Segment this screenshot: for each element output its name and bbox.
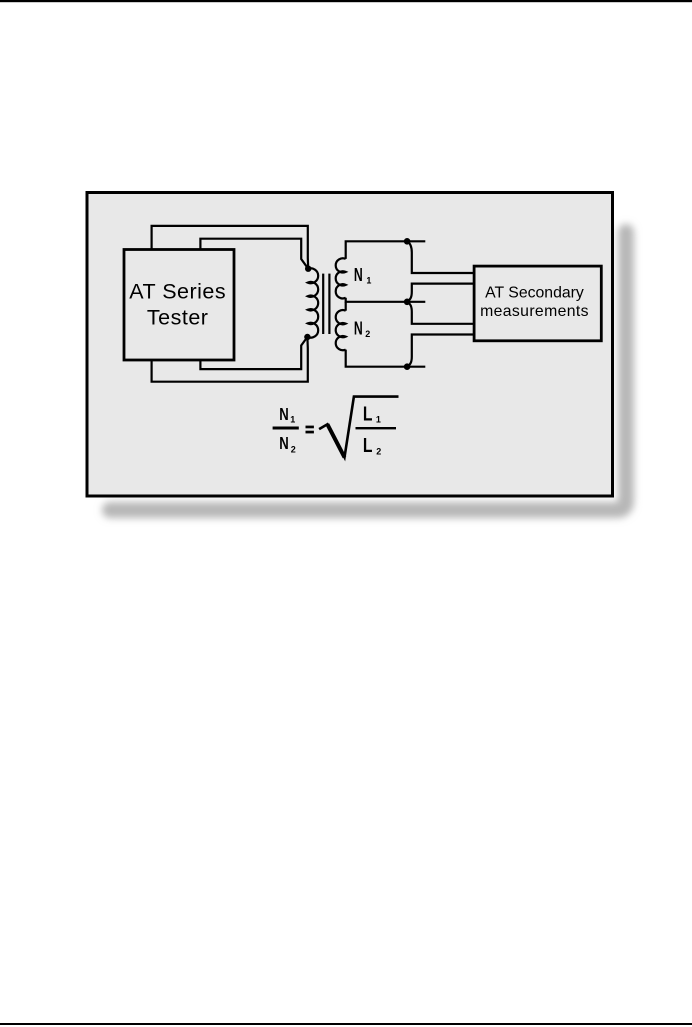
transformer core line 1: [322, 274, 324, 334]
page top rule: [0, 0, 692, 2]
transformer T1 primary winding: [308, 268, 318, 337]
svg-text:1: 1: [366, 276, 371, 286]
svg-text:N: N: [279, 405, 288, 424]
box U1: AT Series Tester: [124, 250, 234, 361]
svg-text:N: N: [354, 266, 363, 286]
panel drop shadow: [102, 224, 634, 518]
junction dot: primary bottom: [304, 334, 310, 340]
svg-text:L: L: [363, 403, 373, 425]
svg-text:Tester: Tester: [147, 305, 209, 329]
label N1: [354, 266, 372, 286]
wire: stub right of top dot: [407, 240, 425, 242]
svg-text:N: N: [354, 319, 363, 339]
svg-text:1: 1: [376, 414, 381, 424]
transformer core line 2: [328, 274, 330, 334]
wire: lead from middle dot to measurement box: [407, 302, 474, 324]
wire: stub right of bottom dot: [407, 366, 425, 368]
wire: stub right of middle dot: [407, 301, 425, 303]
wire: N2 bottom lead: [346, 350, 407, 367]
svg-text:AT Secondary: AT Secondary: [485, 285, 584, 302]
junction dot: secondary middle: [404, 299, 411, 306]
wire: lead from measurement box down to middle dot: [407, 284, 474, 302]
wire: inner loop (tester top to transformer primary top): [200, 239, 308, 269]
formula: L1 over L2: [356, 403, 397, 457]
junction dot: secondary bottom: [404, 363, 411, 370]
diagram panel: [87, 193, 613, 497]
formula: equals sign: [306, 426, 314, 434]
wire: N1 bottom lead / center tap: [346, 298, 407, 302]
box U2: AT Secondary measurements: [474, 266, 601, 341]
label N2: [354, 319, 370, 339]
junction dot: secondary top: [404, 238, 411, 245]
wire: outer loop (tester top to transformer primary top): [152, 226, 309, 269]
winding N1: [336, 258, 346, 298]
svg-text:measurements: measurements: [480, 303, 589, 320]
wire: inner loop (tester bottom to transformer primary bottom): [200, 337, 307, 369]
wire: lead from measurement box down to bottom dot: [407, 335, 474, 367]
wire: N2 top lead: [345, 302, 347, 311]
formula: radical sign: [319, 397, 398, 458]
svg-text:2: 2: [365, 329, 370, 339]
junction dot: primary top: [305, 266, 311, 272]
wire: secondary N1 top lead: [346, 241, 407, 259]
svg-text:AT Series: AT Series: [129, 279, 226, 303]
formula: N1 over N2: [273, 405, 299, 455]
winding N2: [336, 310, 346, 350]
svg-text:1: 1: [290, 414, 295, 424]
svg-text:2: 2: [291, 445, 296, 455]
svg-text:N: N: [279, 434, 288, 453]
svg-text:2: 2: [376, 447, 381, 457]
page bottom rule: [0, 1023, 692, 1025]
svg-text:L: L: [363, 434, 373, 456]
wire: sense lead from top dot to measurement box: [407, 241, 474, 273]
wire: outer loop (tester bottom to transformer primary bottom): [152, 337, 308, 382]
